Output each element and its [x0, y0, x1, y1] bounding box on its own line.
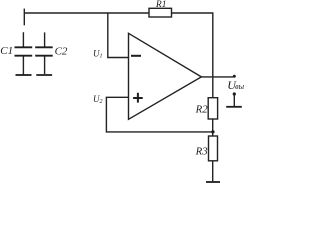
svg-text:R3: R3 [195, 145, 209, 157]
svg-text:R2: R2 [195, 103, 209, 115]
svg-text:R1: R1 [155, 0, 167, 10]
svg-text:C1: C1 [0, 45, 13, 57]
svg-text:C2: C2 [55, 46, 68, 58]
